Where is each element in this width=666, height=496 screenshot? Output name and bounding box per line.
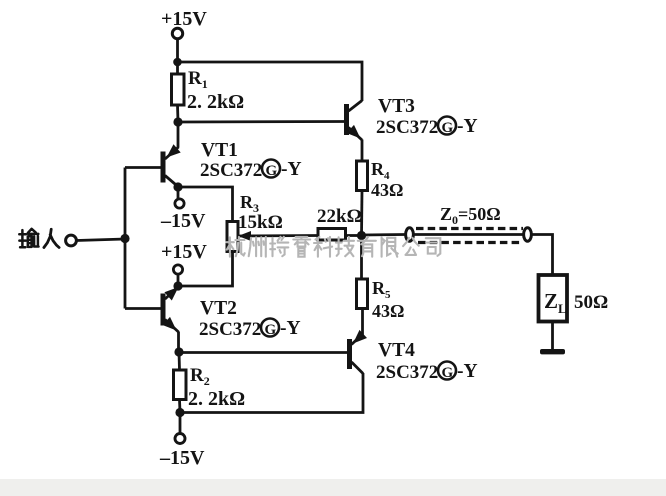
node VT1 collector <box>173 182 182 191</box>
wire <box>360 236 363 280</box>
svg-text:50Ω: 50Ω <box>574 292 608 313</box>
wire <box>360 191 363 237</box>
wire to VT3 collector <box>178 62 363 101</box>
load ZL box <box>539 275 568 322</box>
wire to R3 top <box>178 187 233 222</box>
coax center conductor <box>414 233 525 236</box>
transistor VT3 <box>344 101 362 162</box>
node output <box>357 231 366 240</box>
circled G <box>438 362 456 380</box>
wiper output wire <box>238 234 318 237</box>
wire <box>176 62 179 74</box>
svg-text:2SC372: 2SC372 <box>376 362 438 383</box>
circled G <box>438 117 456 135</box>
watermark (decorative) <box>226 237 440 257</box>
transistor VT1 <box>125 122 181 187</box>
svg-text:15kΩ: 15kΩ <box>238 212 283 233</box>
svg-text:VT1: VT1 <box>201 140 238 161</box>
node input <box>120 234 129 243</box>
input rail wire <box>124 168 127 309</box>
wire <box>179 413 182 434</box>
svg-text:-Y: -Y <box>281 159 302 180</box>
resistor R1 <box>172 74 185 105</box>
wire to VT3 base <box>178 120 344 123</box>
wire to VT4 base <box>179 351 347 354</box>
wire <box>176 39 179 63</box>
svg-text:2. 2kΩ: 2. 2kΩ <box>187 91 244 113</box>
wire <box>178 400 181 413</box>
+15V terminal <box>172 28 182 38</box>
svg-text:2. 2kΩ: 2. 2kΩ <box>188 388 245 410</box>
circled G <box>262 160 280 178</box>
coax left end <box>406 228 414 242</box>
node R1 top <box>173 58 182 67</box>
svg-text:43Ω: 43Ω <box>372 301 404 321</box>
transistor VT2 <box>125 287 179 352</box>
svg-text:VT3: VT3 <box>378 96 415 117</box>
+15V terminal (VT2) <box>173 265 182 274</box>
wire <box>361 309 364 335</box>
input terminal <box>66 235 77 246</box>
svg-text:G: G <box>442 120 454 136</box>
svg-text:–15V: –15V <box>160 210 206 232</box>
svg-text:R1: R1 <box>188 68 208 91</box>
transistor VT4 <box>347 330 367 374</box>
wire <box>177 187 180 199</box>
coax shield top (dashed) <box>416 227 523 230</box>
svg-text:R4: R4 <box>371 159 390 182</box>
svg-text:R5: R5 <box>372 278 391 301</box>
svg-text:Z0=50Ω: Z0=50Ω <box>440 204 501 227</box>
resistor 22k <box>318 229 346 241</box>
wire to VT4 collector <box>180 373 363 413</box>
circled G <box>261 319 279 337</box>
svg-text:22kΩ: 22kΩ <box>317 206 362 227</box>
svg-text:+15V: +15V <box>161 241 207 263</box>
node VT2 collector <box>174 347 183 356</box>
svg-text:2SC372: 2SC372 <box>199 319 261 340</box>
svg-text:G: G <box>442 365 454 381</box>
R3 wiper arrow <box>238 231 251 241</box>
wire <box>178 352 181 370</box>
svg-text:-Y: -Y <box>457 361 478 382</box>
wire <box>176 105 179 122</box>
resistor R5 <box>357 279 368 309</box>
wire <box>77 239 126 241</box>
resistor R2 <box>174 370 187 400</box>
wire to cable <box>362 233 406 236</box>
svg-text:–15V: –15V <box>159 447 205 469</box>
node VT2 emitter <box>173 281 182 290</box>
svg-text:+15V: +15V <box>161 8 207 30</box>
svg-text:-Y: -Y <box>280 318 301 339</box>
svg-text:43Ω: 43Ω <box>371 180 403 200</box>
svg-text:G: G <box>265 322 277 338</box>
svg-text:-Y: -Y <box>457 116 478 137</box>
coax right end <box>524 228 532 242</box>
potentiometer R3 <box>227 222 238 252</box>
svg-text:G: G <box>266 163 278 179</box>
wire <box>551 322 554 351</box>
-15V terminal (VT1) <box>175 199 184 208</box>
svg-text:2SC372: 2SC372 <box>376 117 438 138</box>
wire R3 bottom <box>178 252 233 287</box>
wire <box>177 274 180 286</box>
svg-text:R2: R2 <box>190 365 210 388</box>
node R1 bottom <box>173 117 182 126</box>
wire <box>532 235 553 276</box>
coax shield bottom (dashed) <box>418 241 523 244</box>
-15V terminal bottom <box>175 434 185 444</box>
resistor R4 <box>357 161 368 191</box>
svg-text:VT4: VT4 <box>378 340 415 361</box>
wire <box>346 234 362 237</box>
svg-text:2SC372: 2SC372 <box>200 160 262 181</box>
ground <box>540 349 565 354</box>
node R2 bottom <box>175 408 184 417</box>
input label 输入 <box>19 229 59 248</box>
svg-text:VT2: VT2 <box>200 298 237 319</box>
